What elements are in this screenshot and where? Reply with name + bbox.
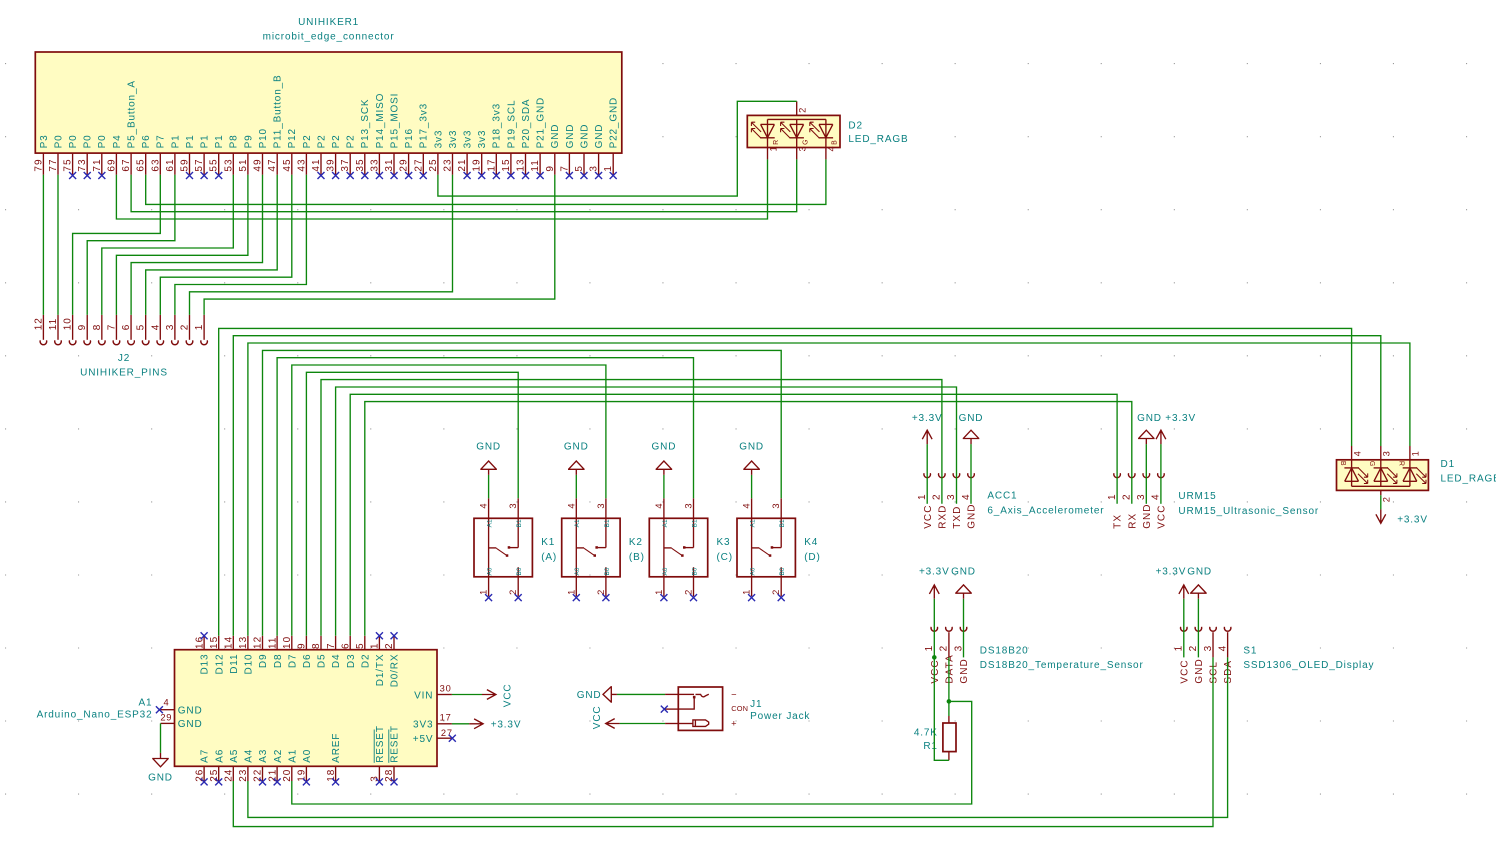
D2 pin 4 (bottom)	[826, 146, 837, 160]
svg-text:57: 57	[194, 158, 205, 171]
wire A1 pin29 to GND symbol	[160, 723, 162, 753]
svg-text:VCC: VCC	[923, 505, 934, 529]
svg-text:69: 69	[106, 158, 117, 171]
wire A1 D6 to K1 pin3	[306, 372, 518, 636]
svg-text:A0: A0	[662, 567, 669, 575]
ground symbol above URM15	[1137, 413, 1162, 444]
wire URM15 VCC to +3.3V	[1160, 444, 1162, 504]
svg-text:2: 2	[508, 589, 518, 595]
svg-text:17: 17	[440, 712, 452, 722]
svg-text:A0: A0	[574, 567, 581, 575]
svg-text:K4: K4	[804, 537, 818, 548]
svg-text:P11_Button_B: P11_Button_B	[273, 74, 284, 148]
svg-text:19: 19	[472, 158, 483, 171]
svg-text:20: 20	[282, 769, 293, 782]
junction on DATA net	[947, 699, 952, 704]
svg-text:GND: GND	[579, 124, 590, 149]
svg-text:DS18B20_Temperature_Sensor: DS18B20_Temperature_Sensor	[980, 660, 1144, 671]
svg-text:7: 7	[326, 642, 337, 649]
wire P11 pin47 to J2 pin5	[146, 175, 278, 315]
svg-text:P2: P2	[302, 134, 313, 148]
svg-text:15: 15	[209, 636, 220, 649]
svg-text:2: 2	[939, 645, 950, 652]
svg-text:63: 63	[150, 158, 161, 171]
svg-text:P18_3v3: P18_3v3	[492, 103, 503, 148]
A1 pin 9 (D6) top	[297, 636, 313, 668]
svg-text:18: 18	[326, 769, 337, 782]
svg-text:SCL: SCL	[1209, 661, 1220, 684]
wire P12 pin45 to J2 pin4	[160, 175, 291, 315]
connector S1 SSD1306_OLED_Display	[1243, 646, 1374, 672]
svg-text:P1: P1	[170, 134, 181, 148]
UNIHIKER1 pin 61 (P1)	[165, 134, 181, 174]
D1 pin 4 (top)	[1352, 446, 1363, 460]
svg-text:DS18B20: DS18B20	[980, 646, 1029, 657]
wire A1 D10 to D1 pin1	[248, 343, 1410, 636]
svg-text:6: 6	[121, 324, 132, 331]
svg-text:GND: GND	[550, 124, 561, 149]
S1 pin 4 (SDA)	[1217, 627, 1234, 684]
wire P6 pin65 to D2 pin4	[146, 159, 826, 204]
svg-text:ACC1: ACC1	[987, 490, 1017, 501]
svg-text:P9: P9	[243, 134, 254, 148]
svg-text:P13_SCK: P13_SCK	[360, 99, 371, 149]
svg-text:30: 30	[440, 683, 452, 693]
wire A1 D11 to D1 pin3	[233, 336, 1381, 636]
UNIHIKER1 pin 43 (P2)	[296, 134, 312, 174]
connector ACC1 6_Axis_Accelerometer	[987, 490, 1104, 516]
K1 pin2 no-connect	[515, 594, 522, 601]
svg-text:D13: D13	[200, 654, 211, 675]
svg-text:73: 73	[77, 158, 88, 171]
svg-text:3: 3	[596, 503, 606, 509]
wire A1 D8 to K3 pin3	[277, 358, 693, 636]
ground symbol above K2	[564, 441, 589, 475]
UNIHIKER1 pin 25 (3v3)	[428, 130, 444, 175]
svg-text:B1: B1	[604, 519, 611, 527]
svg-text:6_Axis_Accelerometer: 6_Axis_Accelerometer	[987, 506, 1104, 517]
svg-text:2: 2	[180, 324, 191, 331]
svg-text:37: 37	[340, 158, 351, 171]
A1 pin 10 (D7) top	[282, 636, 298, 668]
S1 pin 2 (GND)	[1188, 627, 1205, 684]
svg-text:VCC: VCC	[592, 706, 603, 730]
ground symbol above K1	[476, 441, 501, 475]
svg-text:1: 1	[1174, 645, 1185, 652]
svg-text:D1/TX: D1/TX	[375, 654, 386, 687]
power symbol +3.3V above DS18B20	[919, 567, 950, 599]
svg-text:2: 2	[596, 589, 606, 595]
svg-text:P12: P12	[287, 128, 298, 148]
wire 3v3 pin25 to D2 pin2	[438, 101, 797, 196]
A1 pin 1 (D1/TX) top	[370, 632, 386, 686]
svg-text:24: 24	[224, 769, 235, 782]
ground symbol above K4	[739, 441, 764, 475]
svg-text:D4: D4	[331, 654, 342, 668]
svg-text:D1: D1	[1441, 459, 1455, 470]
svg-text:2: 2	[771, 589, 781, 595]
svg-text:2: 2	[798, 107, 808, 113]
wire A1 D7 to K2 pin3	[292, 365, 606, 636]
svg-text:P15_MOSI: P15_MOSI	[389, 93, 400, 149]
A1 pin 19 (A0) bottom	[297, 749, 313, 786]
A1 pin 27 (+5V) right, no-connect	[413, 728, 456, 745]
svg-text:35: 35	[355, 158, 366, 171]
svg-text:25: 25	[428, 158, 439, 171]
LED D1 LED_RAGB body	[1337, 459, 1496, 491]
svg-text:7: 7	[559, 165, 570, 172]
D1 pin 1 (top)	[1410, 446, 1421, 460]
svg-text:microbit_edge_connector: microbit_edge_connector	[263, 31, 395, 42]
svg-text:D11: D11	[229, 654, 240, 674]
power symbol +3.3V (right of A1)	[469, 719, 521, 731]
ACC1 pin 4 (GND)	[961, 473, 978, 529]
wire A1 D4 to ACC1 pin3	[336, 387, 957, 636]
svg-text:11: 11	[48, 318, 59, 330]
svg-text:3V3: 3V3	[413, 720, 433, 731]
K2 pin2 no-connect	[602, 594, 609, 601]
svg-text:P1: P1	[200, 134, 211, 148]
A1 pin 7 (D4) top	[326, 636, 342, 668]
A1 pin 22 (A3) bottom	[253, 749, 269, 786]
svg-text:P21_GND: P21_GND	[536, 97, 547, 149]
UNIHIKER1 pin 55 (P1)	[209, 134, 225, 179]
svg-text:GND: GND	[594, 124, 605, 149]
K3 pin1 no-connect	[660, 594, 667, 601]
svg-text:B0: B0	[779, 567, 786, 575]
svg-text:B: B	[1339, 461, 1346, 466]
svg-text:3: 3	[798, 146, 808, 152]
svg-text:+3.3V: +3.3V	[491, 720, 522, 731]
svg-text:URM15_Ultrasonic_Sensor: URM15_Ultrasonic_Sensor	[1178, 506, 1319, 517]
svg-text:55: 55	[209, 158, 220, 171]
connector J1 Power Jack body	[678, 687, 810, 730]
svg-text:AREF: AREF	[331, 733, 342, 763]
wire DS18B20 GND pin to ground	[963, 599, 965, 658]
svg-text:P6: P6	[141, 134, 152, 148]
svg-text:4: 4	[1217, 645, 1228, 652]
UNIHIKER1 pin 13 (P20_SDA)	[516, 99, 532, 179]
UNIHIKER1 pin 15 (P19_SCL)	[501, 100, 517, 179]
wire P9 pin51 to J2 pin7	[116, 175, 248, 315]
J1 middle pin no-connect	[661, 706, 679, 713]
svg-text:D3: D3	[346, 654, 357, 668]
wire J1 pin2 to VCC (left)	[620, 723, 666, 725]
svg-text:5: 5	[355, 642, 366, 649]
svg-text:4: 4	[150, 324, 161, 331]
svg-text:UNIHIKER_PINS: UNIHIKER_PINS	[80, 367, 168, 378]
svg-text:K3: K3	[717, 537, 731, 548]
svg-text:TX: TX	[1113, 514, 1124, 529]
UNIHIKER1 pin 17 (P18_3v3)	[486, 103, 502, 179]
svg-text:17: 17	[486, 158, 497, 171]
DS18B20 pin 3 (GND)	[953, 627, 970, 684]
svg-text:J1: J1	[750, 699, 762, 710]
S1 pin 1 (VCC)	[1174, 627, 1191, 684]
D2 pin 1 (bottom)	[768, 146, 779, 160]
svg-text:71: 71	[92, 158, 103, 171]
svg-text:1: 1	[768, 146, 778, 152]
UNIHIKER1 pin 33 (P14_MISO)	[369, 93, 385, 179]
svg-text:65: 65	[136, 158, 147, 171]
svg-text:9: 9	[297, 642, 308, 649]
svg-text:3v3: 3v3	[477, 130, 488, 149]
svg-text:P22_GND: P22_GND	[609, 97, 620, 149]
svg-text:2: 2	[684, 589, 694, 595]
svg-text:10: 10	[282, 636, 293, 649]
svg-text:GND: GND	[1187, 567, 1212, 578]
svg-text:29: 29	[160, 713, 172, 723]
A1 pin 26 (A7) bottom	[194, 749, 210, 786]
wire P7 pin63 to J2 pin10	[73, 175, 161, 315]
wire A1 D9 to K4 pin3	[263, 350, 782, 635]
svg-text:A5: A5	[229, 749, 240, 763]
svg-text:(A): (A)	[541, 552, 557, 563]
svg-text:A4: A4	[244, 749, 255, 763]
svg-text:3: 3	[771, 503, 781, 509]
svg-text:P1: P1	[185, 134, 196, 148]
J2 pin 10	[63, 315, 76, 345]
svg-text:2: 2	[1382, 496, 1392, 502]
svg-text:39: 39	[326, 158, 337, 171]
svg-text:6: 6	[340, 642, 351, 649]
svg-text:12: 12	[253, 636, 264, 649]
A1 pin 6 (D3) top	[340, 636, 356, 668]
wire A1 D3 to URM15 pin1	[350, 394, 1117, 636]
ground symbol below A1	[148, 753, 173, 784]
svg-text:P20_SDA: P20_SDA	[521, 99, 532, 149]
svg-text:GND: GND	[959, 658, 970, 683]
svg-text:GND: GND	[652, 441, 677, 452]
svg-text:A0: A0	[750, 567, 757, 575]
svg-text:P4: P4	[112, 134, 123, 148]
svg-text:59: 59	[180, 158, 191, 171]
svg-text:(B): (B)	[629, 552, 645, 563]
svg-text:28: 28	[384, 769, 395, 782]
UNIHIKER1 pin 53 (P8)	[223, 134, 239, 174]
svg-text:B0: B0	[516, 567, 523, 575]
wire P3 pin79 to J2 pin12	[42, 175, 44, 315]
svg-text:P5_Button_A: P5_Button_A	[127, 80, 138, 148]
svg-text:J2: J2	[118, 353, 130, 364]
UNIHIKER1 pin 37 (P2)	[340, 134, 356, 179]
svg-text:1: 1	[1411, 450, 1421, 456]
svg-text:D8: D8	[273, 654, 284, 668]
connector DS18B20 temperature sensor	[980, 646, 1144, 672]
svg-text:GND: GND	[564, 441, 589, 452]
UNIHIKER1 pin 41 (P2)	[311, 134, 327, 179]
URM15 pin 1 (TX)	[1107, 473, 1124, 529]
UNIHIKER1 pin 39 (P2)	[326, 134, 342, 179]
svg-text:3v3: 3v3	[448, 130, 459, 149]
wire P8 pin53 to J2 pin8	[102, 175, 234, 315]
connector UNIHIKER1 microbit_edge_connector body	[35, 17, 622, 153]
svg-text:45: 45	[282, 158, 293, 171]
svg-text:A3: A3	[258, 749, 269, 763]
J2 pin 3	[165, 315, 178, 345]
ACC1 pin 3 (TXD)	[946, 473, 963, 529]
URM15 pin 4 (VCC)	[1151, 473, 1168, 529]
J2 pin 6	[121, 315, 134, 345]
A1 pin 13 (D10) top	[238, 636, 254, 675]
svg-text:P7: P7	[156, 134, 167, 148]
UNIHIKER1 pin 73 (P0)	[77, 134, 93, 179]
svg-text:19: 19	[297, 769, 308, 782]
J2 pin 7	[106, 315, 119, 345]
svg-text:3: 3	[508, 503, 518, 509]
UNIHIKER1 pin 71 (P0)	[92, 134, 108, 179]
svg-text:1: 1	[1107, 493, 1118, 500]
UNIHIKER1 pin 9 (GND)	[545, 124, 561, 175]
svg-text:GND: GND	[148, 773, 173, 784]
svg-text:GND: GND	[1137, 413, 1162, 424]
svg-text:+3.3V: +3.3V	[1165, 413, 1196, 424]
svg-text:RESET: RESET	[375, 725, 386, 763]
svg-text:21: 21	[267, 769, 278, 782]
svg-text:12: 12	[33, 317, 44, 330]
svg-text:3v3: 3v3	[463, 130, 474, 149]
J2 pin 2	[180, 315, 193, 345]
UNIHIKER1 pin 3 (GND)	[589, 124, 605, 179]
UNIHIKER1 pin 69 (P4)	[106, 134, 122, 174]
svg-text:4: 4	[827, 146, 837, 152]
svg-text:G: G	[1368, 461, 1375, 467]
ACC1 pin 2 (RXD)	[932, 473, 949, 529]
svg-text:A0: A0	[487, 567, 494, 575]
svg-text:CON: CON	[731, 704, 748, 713]
wire R1 bottom to DS18B20 VCC net	[934, 657, 949, 760]
A1 pin 14 (D11) top	[224, 636, 240, 674]
svg-text:GND: GND	[577, 690, 602, 701]
A1 pin 25 (A6) bottom	[209, 749, 225, 786]
ground symbol left of J1	[577, 686, 617, 703]
K1 pin1 no-connect	[485, 594, 492, 601]
svg-text:67: 67	[121, 158, 132, 171]
svg-text:9: 9	[77, 324, 88, 331]
svg-text:VCC: VCC	[502, 684, 513, 708]
svg-text:UNIHIKER1: UNIHIKER1	[298, 17, 359, 28]
connector J2 UNIHIKER_PINS	[80, 353, 168, 379]
svg-text:15: 15	[501, 158, 512, 171]
J2 pin 11	[48, 315, 61, 345]
svg-text:P2: P2	[316, 134, 327, 148]
svg-text:10: 10	[63, 317, 74, 330]
svg-text:G: G	[802, 139, 809, 145]
A1 pin 15 (D12) top	[209, 636, 225, 675]
svg-text:4: 4	[1352, 450, 1362, 456]
A1 pin 12 (D9) top	[253, 636, 269, 668]
svg-text:GND: GND	[1142, 503, 1153, 528]
svg-text:D6: D6	[302, 654, 313, 668]
A1 pin 29 (GND) left	[160, 713, 202, 731]
J2 pin 4	[150, 315, 163, 345]
wire A1 A4/pin23 to S1 SDA	[248, 657, 1228, 817]
svg-text:A1: A1	[139, 697, 153, 708]
svg-text:53: 53	[223, 158, 234, 171]
svg-text:3: 3	[946, 493, 957, 500]
svg-text:4: 4	[1151, 493, 1162, 500]
svg-text:P0: P0	[97, 134, 108, 148]
svg-text:29: 29	[399, 158, 410, 171]
wire S1 GND pin to ground	[1197, 599, 1199, 658]
A1 pin 30 (VIN) right	[414, 683, 452, 701]
svg-text:P0: P0	[68, 134, 79, 148]
svg-text:1: 1	[917, 493, 928, 500]
S1 pin 3 (SCL)	[1203, 627, 1220, 684]
UNIHIKER1 pin 77 (P0)	[48, 134, 64, 174]
wire K3 pin4 to ground	[663, 475, 665, 498]
svg-text:8: 8	[311, 642, 322, 649]
power symbol +3.3V above ACC1	[912, 413, 943, 444]
svg-text:1: 1	[479, 589, 489, 595]
UNIHIKER1 pin 49 (P10)	[253, 128, 269, 175]
K3 pin2 no-connect	[690, 594, 697, 601]
svg-text:GND: GND	[951, 567, 976, 578]
svg-text:D9: D9	[258, 654, 269, 668]
svg-text:1: 1	[566, 589, 576, 595]
svg-text:GND: GND	[959, 413, 984, 424]
svg-text:P1: P1	[214, 134, 225, 148]
wire VIN to VCC symbol	[452, 694, 482, 696]
J2 pin 5	[136, 315, 149, 345]
svg-text:4: 4	[654, 503, 664, 509]
svg-text:4: 4	[566, 503, 576, 509]
URM15 pin 3 (GND)	[1136, 473, 1153, 529]
svg-text:79: 79	[33, 158, 44, 171]
svg-text:4: 4	[742, 503, 752, 509]
svg-text:(D): (D)	[804, 552, 820, 563]
svg-text:+3.3V: +3.3V	[1156, 567, 1187, 578]
UNIHIKER1 pin 19 (3v3)	[472, 130, 488, 179]
svg-text:S1: S1	[1243, 646, 1257, 657]
svg-text:13: 13	[516, 158, 527, 171]
A1 pin 28 (RESET) bottom	[384, 725, 400, 785]
svg-text:(C): (C)	[717, 552, 733, 563]
svg-text:49: 49	[253, 158, 264, 171]
svg-text:LED_RAGB: LED_RAGB	[848, 134, 908, 145]
svg-text:A1: A1	[287, 749, 298, 763]
ground symbol above S1	[1187, 567, 1212, 599]
svg-text:P14_MISO: P14_MISO	[375, 93, 386, 149]
URM15 pin 2 (RX)	[1122, 473, 1139, 529]
svg-text:75: 75	[63, 158, 74, 171]
svg-text:7: 7	[106, 324, 117, 331]
svg-text:43: 43	[296, 158, 307, 171]
svg-text:51: 51	[238, 158, 249, 171]
svg-text:A1: A1	[750, 519, 757, 527]
svg-text:RXD: RXD	[937, 505, 948, 529]
wire A1 D5 to ACC1 pin2	[321, 380, 942, 636]
UNIHIKER1 pin 23 (3v3)	[443, 130, 459, 175]
svg-text:DATA: DATA	[945, 654, 956, 683]
wire ACC1 GND pin to ground	[970, 444, 972, 504]
svg-text:D0/RX: D0/RX	[390, 654, 401, 688]
UNIHIKER1 pin 67 (P5_Button_A)	[121, 80, 137, 175]
wire P2 pin43 to J2 pin3	[175, 175, 307, 315]
wire K2 pin4 to ground	[575, 475, 577, 498]
svg-text:RX: RX	[1127, 513, 1138, 529]
connector URM15 URM15_Ultrasonic_Sensor	[1178, 491, 1319, 517]
svg-text:16: 16	[194, 636, 205, 649]
svg-text:1: 1	[194, 324, 205, 331]
wire 3v3 pin23 to J2 pin2	[190, 175, 453, 315]
svg-text:P19_SCL: P19_SCL	[506, 100, 517, 149]
svg-text:3: 3	[1136, 493, 1147, 500]
svg-text:SSD1306_OLED_Display: SSD1306_OLED_Display	[1243, 660, 1374, 671]
svg-text:K2: K2	[629, 537, 643, 548]
J2 pin 9	[77, 315, 90, 345]
wire S1 VCC to +3.3V	[1183, 599, 1185, 658]
